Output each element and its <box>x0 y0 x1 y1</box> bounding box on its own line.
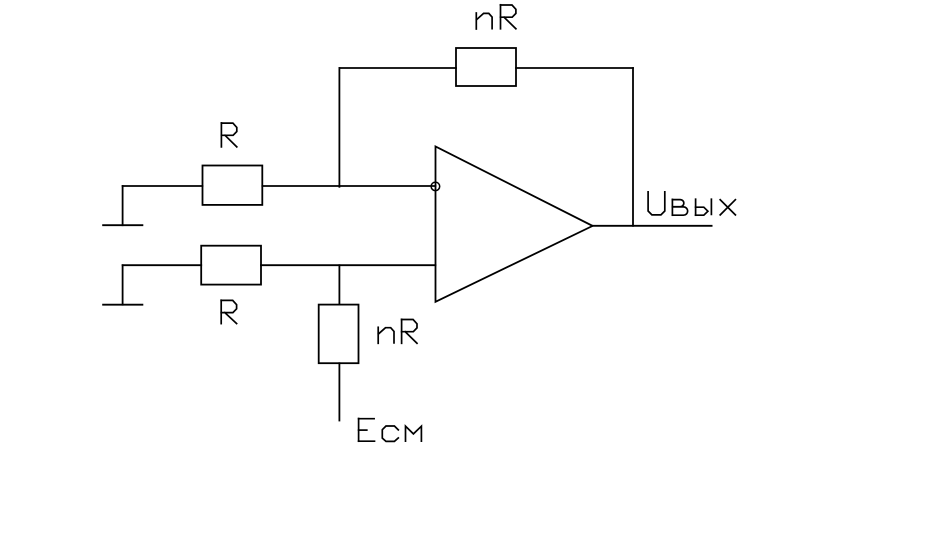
label Uвых : в <box>672 199 687 215</box>
label R (input2) <box>221 300 236 323</box>
label Есм : Е <box>359 419 375 442</box>
resistor R (input2) <box>201 246 261 285</box>
label nR (feedback) : n <box>476 13 492 29</box>
label Uвых : х <box>720 200 735 215</box>
wire input1 right <box>262 185 435 187</box>
wire input2 left <box>123 264 202 266</box>
ground (input2) <box>103 265 142 305</box>
label Uвых : ы <box>696 199 712 215</box>
wire feedback top left horizontal <box>339 67 456 69</box>
resistor nR (bias, vertical) <box>319 305 359 364</box>
label nR (feedback) : R <box>501 5 516 29</box>
label nR (bias) : R <box>402 319 417 343</box>
label Есм : м <box>406 426 422 441</box>
wire input2 right <box>261 264 436 266</box>
wire feedback top right horizontal <box>516 67 633 69</box>
resistor nR (feedback) <box>456 48 516 86</box>
label Uвых : U <box>648 192 665 215</box>
label Есм : с <box>382 426 398 441</box>
wire feedback left vertical <box>338 68 340 187</box>
op-amp U1 triangle <box>436 147 593 302</box>
wire bias vertical upper <box>338 265 340 304</box>
wire bias vertical lower <box>338 363 340 420</box>
ground (input1) <box>103 186 142 225</box>
wire feedback right vertical <box>632 68 634 226</box>
label nR (bias) : n <box>378 327 394 343</box>
wire input1 left <box>123 185 203 187</box>
resistor R (input1) <box>203 166 263 205</box>
wire output <box>593 225 712 227</box>
label R (input1) <box>221 123 236 147</box>
op-amp inverting input bubble <box>431 182 440 191</box>
